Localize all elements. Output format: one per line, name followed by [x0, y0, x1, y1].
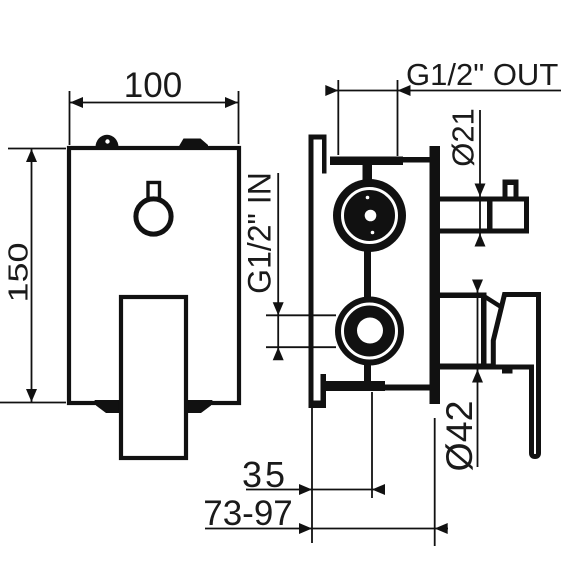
bottom port white ring	[343, 304, 397, 358]
cartridge bottom line	[439, 364, 533, 370]
dimension 73-97: line	[205, 528, 448, 530]
outlet pipe bottom line	[439, 229, 529, 234]
dimension 150: extension line bottom	[0, 402, 66, 404]
dimension Ø42: bottom arrow (points up)	[472, 370, 483, 383]
dimension 150: top arrow	[26, 149, 37, 162]
top port small dot upper	[366, 196, 370, 200]
G1/2 IN: lower arrow (outside, points up)	[273, 347, 284, 360]
cartridge top line	[439, 293, 486, 299]
stem below bottom port	[364, 363, 371, 382]
outlet pipe top line	[439, 197, 529, 202]
svg-text:Ø21: Ø21	[446, 108, 481, 167]
bottom flange	[309, 374, 327, 408]
dimension Ø21: top arrow (points down)	[475, 184, 486, 197]
G1/2 OUT: extension line 1	[337, 80, 339, 155]
plate (front view body)	[69, 148, 239, 403]
dimension Ø42: line	[477, 283, 479, 467]
dimension 100: left arrow	[70, 97, 83, 108]
bottom port center hole	[357, 318, 383, 344]
top bracket bar thin extension to trim plate	[403, 157, 431, 163]
lever handle (front view)	[121, 297, 186, 458]
right fillet wedge at plate bottom	[185, 400, 213, 413]
dimension 100: extension line right	[238, 91, 240, 144]
dimension Ø42: top arrow (points down)	[472, 280, 483, 293]
left fillet wedge at plate bottom	[95, 400, 123, 413]
top port (G1/2 OUT) outer circle	[333, 179, 406, 252]
G1/2 OUT: left arrow (outside, points right)	[325, 85, 338, 96]
bottom mounting bracket bar	[324, 381, 385, 391]
trim plate (edge-on)	[430, 146, 441, 404]
dimension Ø21: bottom arrow (points up)	[475, 234, 486, 247]
outlet pipe divider	[487, 197, 493, 234]
knob tab	[148, 183, 160, 199]
svg-text:73-97: 73-97	[203, 494, 293, 533]
dimension 100: right arrow	[225, 97, 238, 108]
svg-text:Ø42: Ø42	[438, 401, 480, 472]
dome bump on plate top	[96, 135, 119, 147]
dimension 150: bottom arrow	[26, 389, 37, 402]
lever wedge diagonal	[483, 296, 504, 309]
dimension 100: line	[70, 102, 238, 104]
stem between ports	[364, 250, 371, 300]
dimension 73-97: left arrow (outside, points right)	[299, 523, 312, 534]
svg-text:G1/2" IN: G1/2" IN	[242, 172, 278, 294]
G1/2 IN: upper arrow (outside, points down)	[273, 302, 284, 315]
dimension 73-97: right arrow (outside, points left)	[435, 523, 448, 534]
G1/2 OUT: dimension line	[327, 90, 561, 92]
bottom bracket thin extension to trim plate	[385, 385, 434, 391]
top flange	[309, 135, 327, 174]
dome white dot	[105, 139, 109, 143]
dimension Ø21: line	[479, 110, 481, 244]
top port white ring	[343, 189, 397, 243]
G1/2 IN: dimension line (vertical, doubles as underline)	[277, 173, 279, 359]
top port center hole	[365, 210, 377, 222]
dimension 35: right arrow (outside, points left)	[372, 484, 385, 495]
G1/2 OUT: right arrow (outside, points left)	[398, 85, 411, 96]
outlet pipe knob	[503, 180, 519, 198]
outlet pipe right end	[524, 197, 529, 234]
G1/2 IN: extension line upper	[266, 314, 336, 316]
svg-text:35: 35	[242, 454, 288, 495]
top mounting bracket bar	[330, 157, 403, 166]
cartridge right edge	[481, 293, 487, 366]
svg-text:150: 150	[2, 242, 33, 302]
G1/2 OUT: extension line 2	[397, 80, 399, 156]
knob circle	[136, 199, 171, 234]
dimension 35: extension line (wall)	[311, 393, 313, 543]
wall plate (edge-on)	[309, 135, 314, 408]
dimension 73-97: extension line (trim plate)	[434, 418, 436, 546]
stem above top port	[363, 165, 373, 181]
dimension 150: line	[31, 149, 33, 402]
dimension 35: left arrow (outside, points right)	[299, 484, 312, 495]
lever tab below bottom line	[502, 370, 513, 374]
dimension 35: extension line (axis)	[371, 392, 373, 498]
svg-text:100: 100	[124, 66, 182, 105]
G1/2 IN: extension line lower	[266, 346, 336, 348]
trapezoid bump on plate top	[179, 139, 209, 148]
lever handle (side view)	[493, 295, 538, 457]
top port small dot lower	[371, 231, 375, 235]
svg-text:G1/2" OUT: G1/2" OUT	[406, 57, 558, 92]
bottom port (G1/2 IN) outer circle	[335, 297, 404, 366]
dimension 150: extension line top	[8, 148, 66, 150]
dimension 35: line	[246, 489, 383, 491]
dimension 100: extension line left	[69, 91, 71, 145]
